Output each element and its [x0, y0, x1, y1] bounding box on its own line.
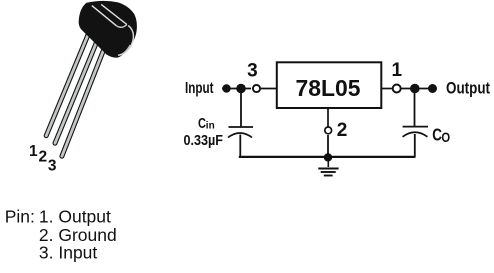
regulator U1 78L05 box — [277, 62, 382, 108]
wire input node down to Cin — [240, 89, 242, 128]
svg-text:3: 3 — [247, 61, 258, 82]
pin 1 terminal circle — [393, 85, 401, 93]
svg-text:Pin:: Pin: — [5, 207, 35, 227]
capacitor Cin — [228, 127, 253, 138]
pin legend text — [5, 207, 117, 263]
svg-text:O: O — [441, 129, 450, 145]
capacitor Cin reference label — [198, 116, 215, 132]
svg-text:3: 3 — [48, 157, 57, 174]
svg-text:78L05: 78L05 — [296, 75, 361, 101]
capacitor C0 reference label — [432, 125, 450, 146]
pin 3 terminal circle — [253, 85, 260, 92]
wire input segment — [222, 88, 251, 90]
transistor Q1 lead 3 — [62, 43, 107, 156]
wire pin3 to regulator — [260, 88, 277, 90]
wire regulator pin2 down — [327, 108, 329, 127]
wire output segment — [401, 88, 432, 90]
capacitor C0 — [403, 127, 428, 137]
node output junction dot — [410, 84, 420, 94]
svg-text:1. Output: 1. Output — [39, 207, 111, 227]
wire ground rail — [239, 156, 416, 158]
transistor Q1 lead 2 — [55, 38, 98, 143]
node output terminal dot — [428, 84, 437, 93]
node input terminal dot — [222, 84, 230, 92]
svg-text:1: 1 — [392, 60, 403, 81]
svg-text:0.33µF: 0.33µF — [184, 132, 224, 149]
svg-text:Input: Input — [185, 80, 214, 97]
transistor Q1 lead 1 — [46, 31, 90, 136]
ground symbol — [318, 157, 338, 176]
svg-text:3. Input: 3. Input — [39, 242, 98, 262]
transistor Q1 body (TO-92 package) — [79, 1, 137, 58]
wire Cin down to ground rail — [239, 135, 241, 158]
wire C0 down to ground rail — [414, 134, 416, 157]
svg-text:in: in — [206, 121, 215, 132]
wire pin2 to ground rail — [327, 135, 329, 155]
svg-text:2: 2 — [337, 120, 348, 141]
pin 2 terminal circle — [325, 127, 332, 134]
svg-text:1: 1 — [29, 143, 38, 160]
node input junction dot — [236, 84, 246, 94]
svg-text:Output: Output — [446, 79, 490, 98]
svg-text:2: 2 — [38, 148, 47, 165]
wire regulator to pin1 — [382, 88, 393, 90]
wire output node down to C0 — [414, 92, 416, 127]
node ground junction dot — [324, 153, 332, 161]
